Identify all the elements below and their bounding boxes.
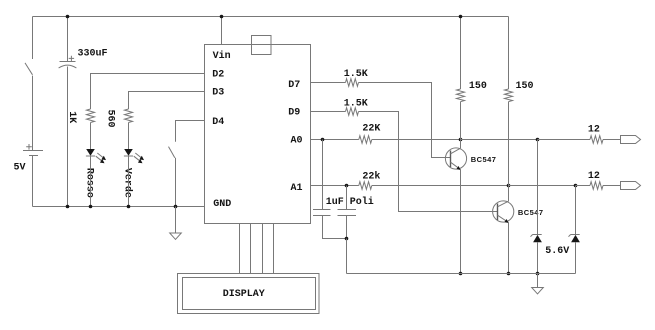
capacitor C2 1uF bbox=[313, 210, 331, 216]
wire D3 to branch bbox=[129, 92, 205, 110]
svg-text:BC547: BC547 bbox=[518, 208, 544, 217]
wire cap C1 bottom bbox=[67, 67, 69, 207]
wire display pin 1 bbox=[239, 224, 241, 274]
node junction bottom rail / LED green bbox=[127, 205, 131, 209]
switch S2 on D4 bbox=[169, 147, 175, 158]
pin label A1 bbox=[291, 183, 303, 194]
svg-text:1.5K: 1.5K bbox=[344, 69, 368, 80]
node junction caps common bbox=[345, 237, 349, 241]
node junction A0 / Q1 collector / R7 bbox=[459, 138, 463, 142]
svg-text:150: 150 bbox=[516, 81, 534, 92]
label 5.6V bbox=[545, 246, 569, 257]
pin label Vin bbox=[213, 50, 231, 62]
svg-text:22k: 22k bbox=[362, 170, 380, 182]
label 1uF Poli bbox=[326, 196, 374, 208]
wire LED to rail bbox=[90, 156, 92, 207]
resistor R3 1.5K bbox=[346, 79, 359, 87]
wire C2 bottom bbox=[323, 216, 347, 239]
svg-text:BC547: BC547 bbox=[471, 155, 497, 164]
wire R2 to LED bbox=[128, 123, 130, 150]
wire D2 to branch bbox=[91, 74, 205, 110]
node junction bottom rail / Q2 emitter bbox=[507, 272, 511, 276]
svg-text:A1: A1 bbox=[291, 183, 303, 194]
capacitor C1 330uF bbox=[59, 56, 77, 68]
svg-text:GND: GND bbox=[213, 199, 231, 210]
label 1.5K upper bbox=[344, 69, 368, 80]
label Rosso bbox=[83, 168, 94, 198]
wire A0 stub bbox=[311, 139, 359, 141]
pin label D7 bbox=[288, 80, 300, 91]
wire A0 to cap C2 bbox=[322, 140, 324, 210]
node junction top rail / C1 bbox=[66, 15, 70, 19]
svg-text:1K: 1K bbox=[66, 111, 77, 123]
wire D9 to R4 bbox=[311, 111, 346, 113]
label 150 left bbox=[469, 81, 487, 92]
svg-text:12: 12 bbox=[588, 125, 600, 136]
wire collector node to zener node bbox=[461, 139, 538, 141]
resistor R8 150 bbox=[505, 89, 513, 102]
wire R8 to Q2 collector bbox=[508, 102, 510, 186]
label 150 right bbox=[516, 81, 534, 92]
svg-text:Vin: Vin bbox=[213, 50, 231, 62]
svg-text:1.5K: 1.5K bbox=[344, 99, 368, 110]
svg-text:560: 560 bbox=[105, 109, 116, 127]
label Verde bbox=[121, 168, 133, 198]
svg-text:D2: D2 bbox=[212, 70, 224, 81]
wire R1 to LED bbox=[90, 123, 92, 150]
svg-text:D9: D9 bbox=[288, 108, 300, 119]
connector output 2 bbox=[621, 182, 641, 190]
wire Q1 collector up bbox=[460, 140, 462, 149]
resistor R6 22k bbox=[359, 182, 372, 190]
wire battery to rail bbox=[32, 156, 34, 207]
node junction A1 / C3 bbox=[345, 184, 349, 188]
label 12 lower bbox=[588, 171, 600, 182]
ground symbol left bbox=[170, 233, 182, 239]
wire switch to rail bbox=[175, 158, 177, 207]
switch S1 power bbox=[25, 17, 33, 151]
svg-text:DISPLAY: DISPLAY bbox=[223, 289, 265, 300]
chip notch square bbox=[252, 36, 272, 55]
wire caps to bottom rail bbox=[346, 239, 348, 274]
resistor R5 22K bbox=[359, 136, 372, 144]
display module inner box bbox=[183, 278, 316, 310]
wire display pin 2 bbox=[250, 224, 252, 274]
wire display pin 3 bbox=[262, 224, 264, 274]
wire A1 node to zener Z2 bbox=[575, 186, 577, 235]
node junction bottom rail / switch / ground bbox=[174, 205, 178, 209]
label 12 upper bbox=[588, 125, 600, 136]
wire display pin 4 bbox=[273, 224, 275, 274]
ground symbol right bbox=[532, 288, 544, 294]
wire R4 to Q2 base bbox=[359, 112, 498, 212]
pin label D9 bbox=[288, 108, 300, 119]
wire R5 to Q1 collector node bbox=[372, 139, 461, 141]
node junction bottom rail / Z1 / ground bbox=[536, 272, 540, 276]
resistor R1 1K bbox=[87, 109, 95, 123]
transistor Q1 BC547 bbox=[445, 148, 466, 170]
label BC547 lower bbox=[518, 208, 544, 217]
LED D1 red bbox=[86, 149, 106, 163]
wire Vin from top rail bbox=[221, 17, 223, 45]
label 1.5K lower bbox=[344, 99, 368, 110]
wire top supply rail bbox=[33, 16, 509, 18]
zener diode Z2 5.6V bbox=[569, 235, 580, 243]
node junction top rail / R7 bbox=[459, 15, 463, 19]
node junction bottom rail / Q1 emitter bbox=[459, 272, 463, 276]
svg-text:D7: D7 bbox=[288, 80, 300, 91]
pin label D3 bbox=[212, 88, 224, 99]
wire C3 bottom bbox=[346, 216, 348, 239]
pin label D4 bbox=[212, 117, 224, 128]
wire Z1 to bottom rail bbox=[537, 243, 539, 274]
display module outer box bbox=[178, 274, 320, 314]
node junction bottom rail / C1 bbox=[66, 205, 70, 209]
node junction bottom rail / LED red bbox=[89, 205, 93, 209]
label 330uF bbox=[78, 49, 108, 60]
label 22K bbox=[362, 124, 380, 135]
label DISPLAY bbox=[223, 289, 265, 300]
op-amp U1 microcontroller body bbox=[205, 45, 311, 224]
svg-text:Rosso: Rosso bbox=[83, 168, 94, 198]
pin label GND bbox=[213, 199, 231, 210]
node junction top rail / Vin bbox=[220, 15, 224, 19]
wire Z2 to bottom rail bbox=[575, 243, 577, 274]
wire A0 node to zener Z1 bbox=[537, 140, 539, 235]
wire R7 to Q1 collector bbox=[460, 102, 462, 140]
wire zener node to R10 bbox=[576, 185, 591, 187]
wire R9 to connector bbox=[603, 139, 621, 141]
wire D7 to R3 bbox=[311, 82, 346, 84]
svg-text:1uF Poli: 1uF Poli bbox=[326, 196, 374, 208]
LED D2 green bbox=[124, 149, 144, 163]
wire A1 to cap C3 bbox=[346, 186, 348, 210]
wire cap C1 top bbox=[67, 17, 69, 62]
pin label A0 bbox=[291, 135, 303, 146]
svg-text:D4: D4 bbox=[212, 117, 224, 128]
svg-text:150: 150 bbox=[469, 81, 487, 92]
transistor Q2 BC547 bbox=[493, 201, 514, 223]
pin label D2 bbox=[212, 70, 224, 81]
wire bottom left ground rail bbox=[33, 206, 205, 208]
node junction A1 / zener Z2 bbox=[574, 184, 578, 188]
wire bottom right ground rail bbox=[347, 273, 576, 275]
svg-text:A0: A0 bbox=[291, 135, 303, 146]
svg-text:5.6V: 5.6V bbox=[545, 246, 569, 257]
svg-text:Verde: Verde bbox=[121, 168, 133, 198]
svg-text:22K: 22K bbox=[362, 124, 380, 135]
resistor R10 12 bbox=[590, 182, 603, 190]
svg-text:330uF: 330uF bbox=[78, 49, 108, 60]
label 5V bbox=[14, 163, 26, 174]
wire Q2 emitter to bottom rail bbox=[508, 223, 510, 274]
wire to ground symbol right bbox=[537, 274, 539, 288]
capacitor C3 1uF bbox=[338, 210, 357, 216]
wire R3 to Q1 base bbox=[359, 83, 451, 158]
label BC547 upper bbox=[471, 155, 497, 164]
svg-text:D3: D3 bbox=[212, 88, 224, 99]
resistor R9 12 bbox=[590, 136, 603, 144]
wire Q2 collector up bbox=[508, 186, 510, 202]
battery B1 5V bbox=[23, 144, 43, 156]
resistor R4 1.5K bbox=[346, 108, 359, 116]
connector output 1 bbox=[621, 136, 641, 144]
wire A1 stub bbox=[311, 185, 359, 187]
node junction A0 / zener Z1 bbox=[536, 138, 540, 142]
node junction A0 / C2 bbox=[321, 138, 325, 142]
resistor R7 150 bbox=[457, 89, 465, 102]
wire Q2 collector node to zener node bbox=[509, 185, 576, 187]
wire rail to R7 bbox=[460, 17, 462, 90]
wire LED to rail bbox=[128, 156, 130, 207]
label 560 bbox=[105, 109, 116, 127]
label 22k bbox=[362, 170, 380, 182]
resistor R2 560 bbox=[125, 109, 133, 123]
wire rail to R8 bbox=[508, 17, 510, 90]
wire zener node to R9 bbox=[538, 139, 591, 141]
svg-text:12: 12 bbox=[588, 171, 600, 182]
svg-text:5V: 5V bbox=[14, 163, 26, 174]
node junction A1 / Q2 collector / R8 bbox=[507, 184, 511, 188]
wire to ground symbol bbox=[175, 207, 177, 234]
label 1K bbox=[66, 111, 77, 123]
wire D4 to switch bbox=[176, 121, 205, 142]
zener diode Z1 5.6V bbox=[531, 235, 542, 243]
wire R10 to connector bbox=[603, 185, 621, 187]
wire Q1 emitter to bottom rail bbox=[460, 170, 462, 274]
wire R6 to Q2 collector node bbox=[372, 185, 509, 187]
